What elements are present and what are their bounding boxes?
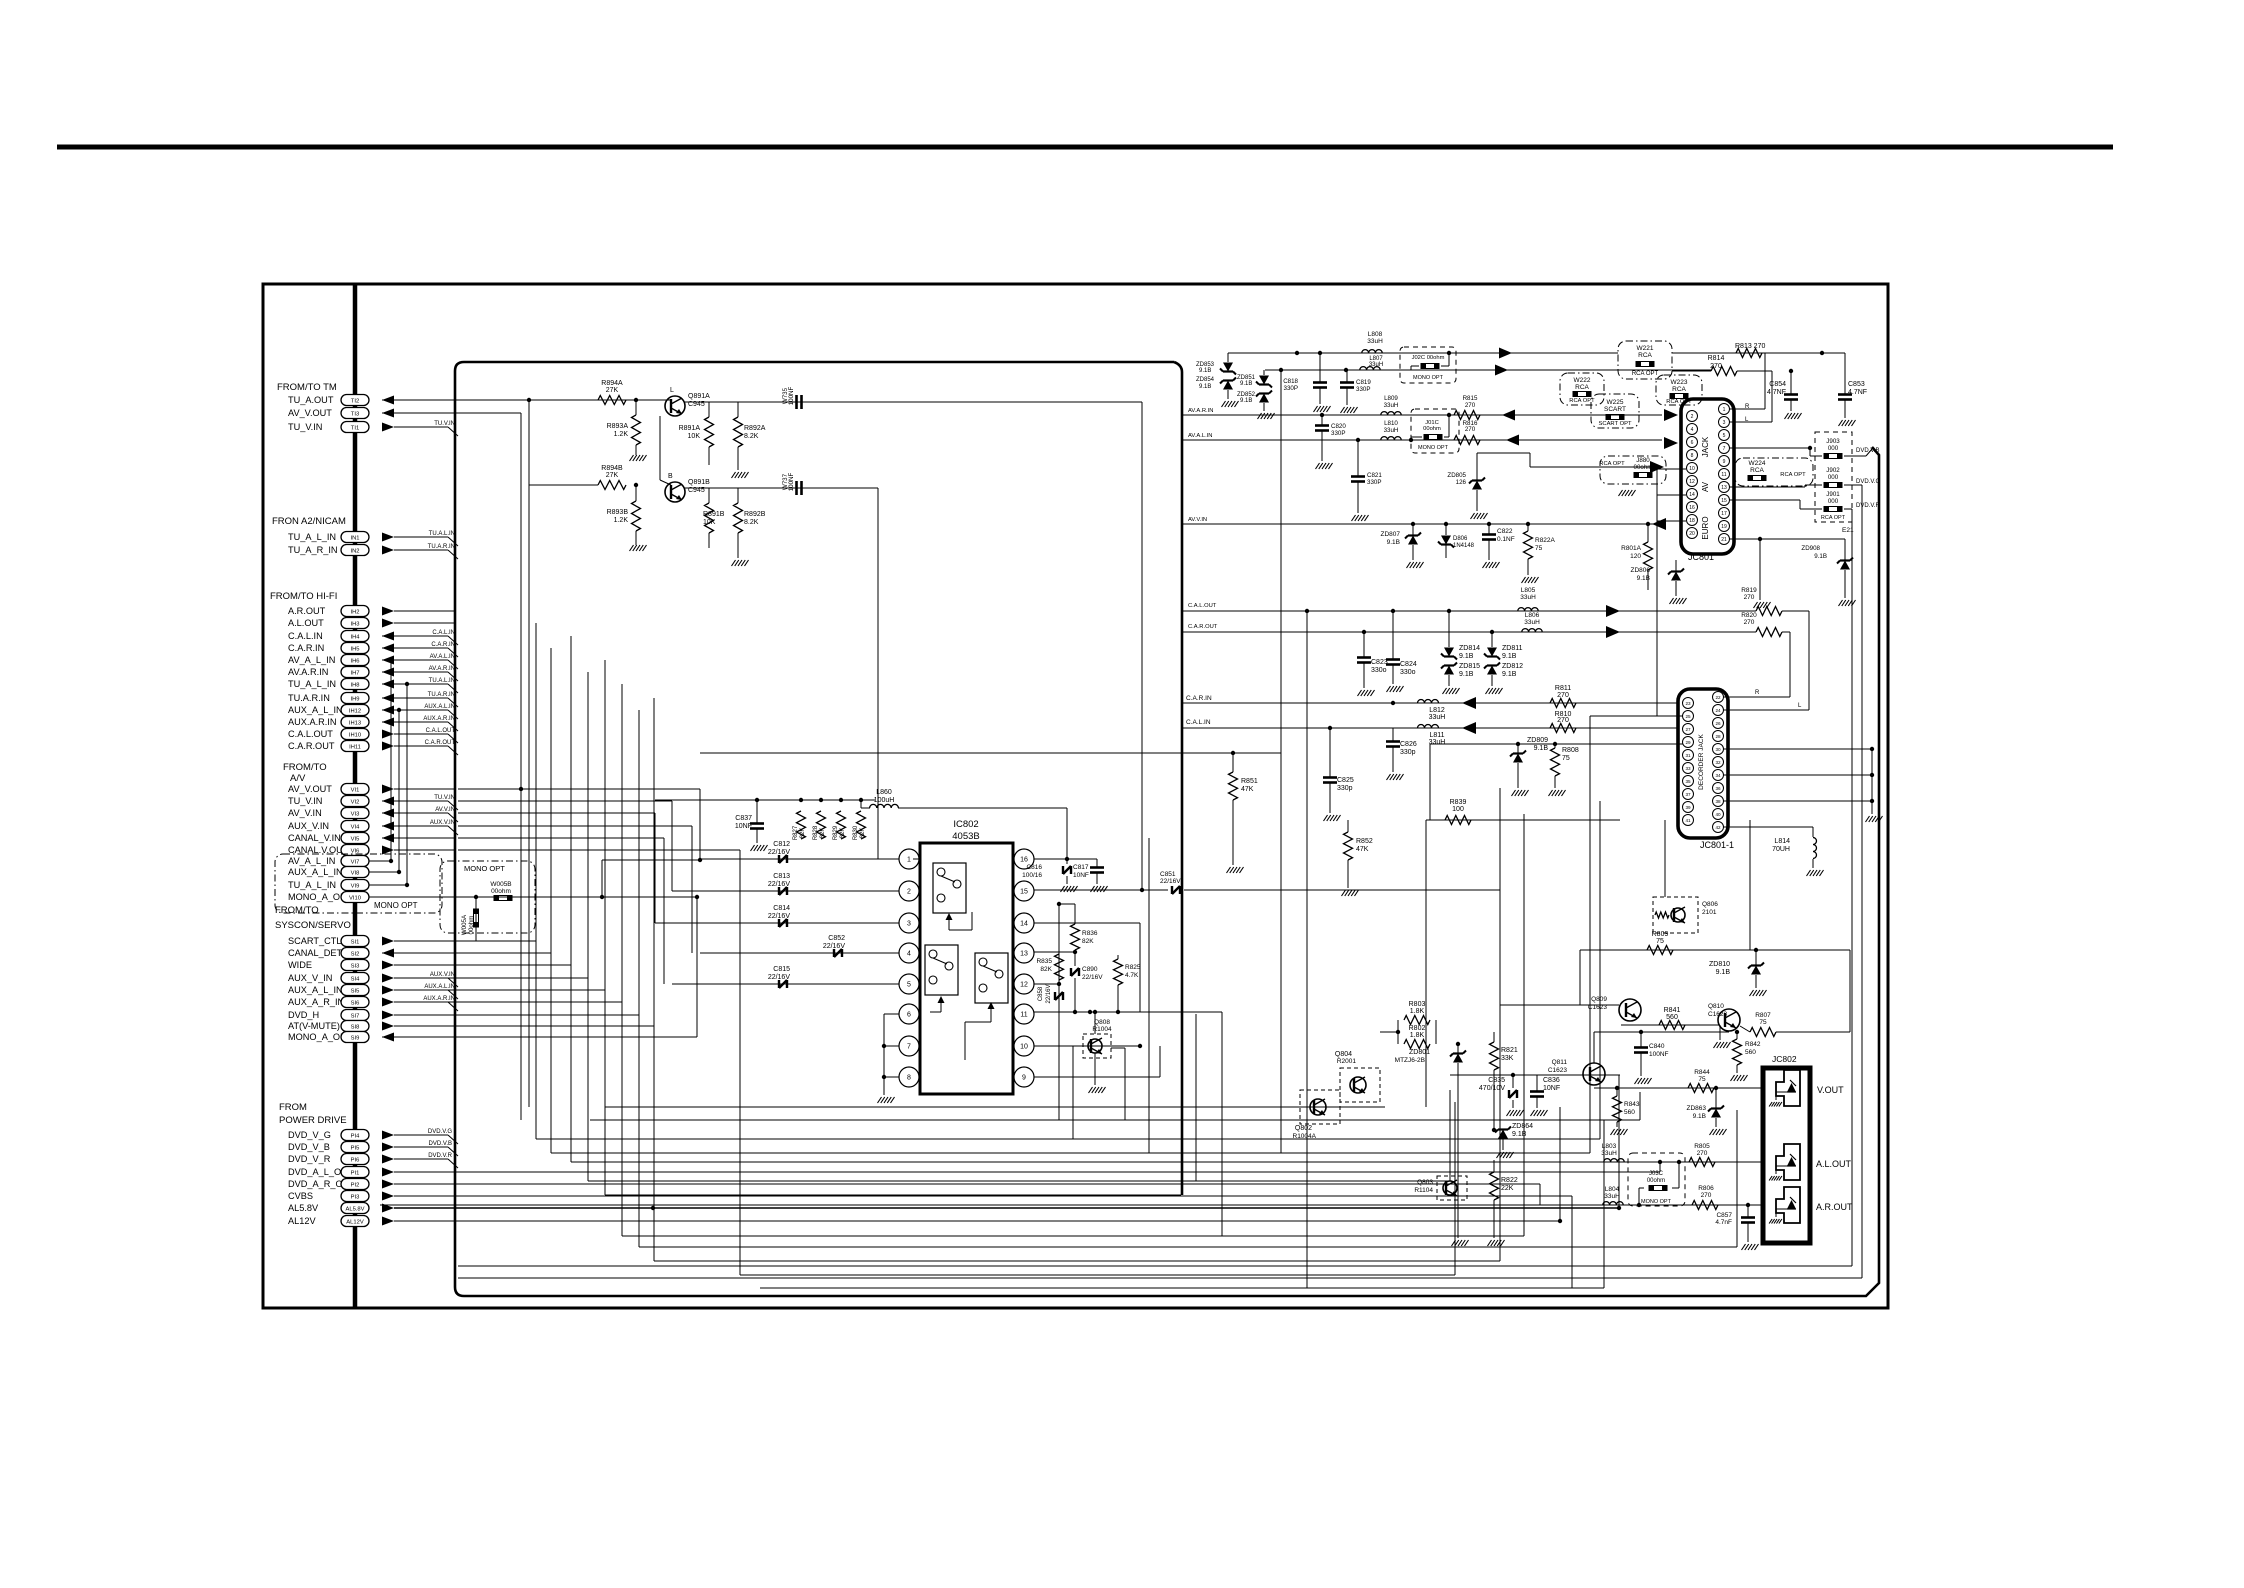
svg-text:12: 12 xyxy=(1020,982,1028,989)
svg-text:ZD815: ZD815 xyxy=(1459,663,1480,670)
svg-text:C826: C826 xyxy=(1400,741,1417,748)
svg-text:L811: L811 xyxy=(1429,732,1444,739)
svg-text:AUX.V.IN: AUX.V.IN xyxy=(430,972,455,978)
resistor R821 33K xyxy=(1490,1042,1499,1070)
svg-text:IH5: IH5 xyxy=(350,647,359,653)
svg-text:3: 3 xyxy=(907,921,911,928)
jumper J01C tie wires xyxy=(1448,415,1450,437)
svg-text:R2001: R2001 xyxy=(1337,1058,1357,1065)
svg-text:CANAL_V.IN: CANAL_V.IN xyxy=(288,833,341,843)
dash-dot box W224 RCA xyxy=(1735,458,1813,486)
svg-text:RCA OPT: RCA OPT xyxy=(1780,472,1806,478)
maze route to C857 riser xyxy=(639,1246,1737,1248)
resistor R829 82K xyxy=(837,811,846,839)
svg-text:DVD_H: DVD_H xyxy=(288,1010,319,1020)
wire mid vertical to JC801-1 xyxy=(1590,715,1683,717)
svg-text:560: 560 xyxy=(1624,1109,1635,1116)
svg-text:IH12: IH12 xyxy=(349,709,361,715)
svg-text:R894B: R894B xyxy=(601,465,623,472)
svg-text:R805: R805 xyxy=(1694,1143,1710,1150)
svg-text:70UH: 70UH xyxy=(1772,846,1790,853)
arrow C.A.L.IN xyxy=(1462,722,1476,734)
svg-text:270: 270 xyxy=(1465,402,1476,409)
svg-text:R815: R815 xyxy=(1463,395,1478,402)
svg-text:AUX.V.IN: AUX.V.IN xyxy=(430,820,455,826)
svg-text:FROM/TO HI-FI: FROM/TO HI-FI xyxy=(270,591,337,602)
svg-text:22/16V: 22/16V xyxy=(1160,878,1181,885)
svg-text:000: 000 xyxy=(1828,498,1839,505)
svg-text:R891A: R891A xyxy=(679,425,701,432)
svg-text:R839: R839 xyxy=(1450,799,1467,806)
svg-text:A.L.OUT: A.L.OUT xyxy=(288,618,324,628)
svg-text:19: 19 xyxy=(1721,524,1727,530)
svg-text:13: 13 xyxy=(1020,951,1028,958)
svg-text:FROM/TO: FROM/TO xyxy=(283,762,327,773)
arrow out C.A.R.OUT xyxy=(1606,626,1620,638)
svg-text:2: 2 xyxy=(907,889,911,896)
svg-text:75: 75 xyxy=(1535,545,1543,552)
svg-text:C818: C818 xyxy=(1283,378,1298,385)
svg-text:AV.V.IN: AV.V.IN xyxy=(435,807,455,813)
svg-text:82K: 82K xyxy=(820,828,826,839)
inductor L811 33uH xyxy=(1418,725,1439,728)
maze route wires xyxy=(536,1138,1600,1140)
svg-text:33K: 33K xyxy=(1501,1055,1514,1062)
svg-text:ZD811: ZD811 xyxy=(1502,645,1523,652)
svg-text:CVBS: CVBS xyxy=(288,1191,313,1201)
wire base bias row B xyxy=(528,400,530,485)
svg-text:C852: C852 xyxy=(828,935,845,942)
arrow into JC801 pin8 xyxy=(1650,461,1664,473)
DVD video route wires to right edge xyxy=(458,1265,1852,1267)
svg-text:R809: R809 xyxy=(1652,931,1669,938)
svg-text:C890: C890 xyxy=(1082,966,1098,973)
svg-text:R844: R844 xyxy=(1694,1069,1710,1076)
JC802 V.OUT jack xyxy=(1776,1070,1800,1106)
svg-text:VI1: VI1 xyxy=(351,788,360,794)
svg-text:270: 270 xyxy=(1744,619,1755,626)
svg-text:TU.V.IN: TU.V.IN xyxy=(434,795,455,801)
svg-text:AV.A.R.IN: AV.A.R.IN xyxy=(429,666,455,672)
svg-text:PI5: PI5 xyxy=(351,1146,360,1152)
resistor R892B 8.2K xyxy=(734,503,743,533)
svg-text:126: 126 xyxy=(1456,479,1467,486)
svg-text:C.A.L.IN: C.A.L.IN xyxy=(1186,719,1211,726)
svg-text:IH4: IH4 xyxy=(350,635,360,641)
svg-text:R852: R852 xyxy=(1356,838,1373,845)
svg-text:24: 24 xyxy=(1715,708,1721,713)
svg-text:39: 39 xyxy=(1685,805,1691,810)
svg-text:L814: L814 xyxy=(1774,838,1790,845)
transistor Q803 R1104 (digital) xyxy=(1437,1176,1467,1200)
svg-text:270: 270 xyxy=(1701,1192,1712,1199)
svg-text:SI7: SI7 xyxy=(351,1014,360,1020)
svg-text:C821: C821 xyxy=(1367,472,1382,479)
wires JC801-1 right side to gnd rail xyxy=(1723,748,1872,750)
svg-text:R893A: R893A xyxy=(607,423,629,430)
svg-text:FRON A2/NICAM: FRON A2/NICAM xyxy=(272,516,346,527)
svg-text:10K: 10K xyxy=(688,433,701,440)
svg-text:W225: W225 xyxy=(1607,399,1624,406)
svg-text:27K: 27K xyxy=(606,387,619,394)
svg-text:SI9: SI9 xyxy=(351,1036,360,1042)
svg-text:C.A.R.OUT: C.A.R.OUT xyxy=(1188,624,1218,630)
svg-text:SCART OPT: SCART OPT xyxy=(1599,421,1632,427)
svg-text:82K: 82K xyxy=(860,828,866,839)
svg-text:C819: C819 xyxy=(1356,379,1371,386)
svg-text:ZD908: ZD908 xyxy=(1801,545,1820,552)
svg-text:10NF: 10NF xyxy=(1073,872,1089,879)
svg-text:31: 31 xyxy=(1685,753,1691,758)
svg-text:22/16V: 22/16V xyxy=(823,943,846,950)
svg-text:J903: J903 xyxy=(1826,438,1840,445)
svg-text:16: 16 xyxy=(1689,505,1695,511)
svg-text:33uH: 33uH xyxy=(1520,594,1536,601)
svg-text:W224: W224 xyxy=(1749,460,1766,467)
svg-text:AV_V.OUT: AV_V.OUT xyxy=(288,408,332,418)
svg-text:B: B xyxy=(668,473,673,480)
IC802 switch box C xyxy=(975,953,1008,1003)
resistor R808 75 xyxy=(1551,748,1560,776)
svg-text:R813 270: R813 270 xyxy=(1735,343,1765,350)
resistor R891B 10K xyxy=(705,503,714,533)
svg-text:33uH: 33uH xyxy=(1524,619,1540,626)
wire pin21 down xyxy=(1729,538,1845,540)
svg-text:AV.A.L.IN: AV.A.L.IN xyxy=(1188,433,1213,439)
svg-text:9.1B: 9.1B xyxy=(1637,575,1650,582)
svg-text:82K: 82K xyxy=(1040,966,1052,973)
svg-text:DVD_V_B: DVD_V_B xyxy=(288,1142,330,1152)
svg-text:IH3: IH3 xyxy=(350,622,359,628)
svg-text:DECORDER JACK: DECORDER JACK xyxy=(1698,734,1705,790)
JC801-1 right pins xyxy=(1713,692,1724,703)
svg-text:R836: R836 xyxy=(1082,930,1098,937)
svg-text:21: 21 xyxy=(1721,537,1727,543)
svg-text:C817: C817 xyxy=(1073,864,1089,871)
wire rail C835 xyxy=(1450,1074,1620,1076)
svg-text:AL12V: AL12V xyxy=(288,1216,316,1226)
svg-text:DVD.V.G: DVD.V.G xyxy=(1856,479,1880,485)
svg-text:9.1B: 9.1B xyxy=(1534,745,1549,752)
svg-text:22/16V: 22/16V xyxy=(1046,984,1052,1003)
svg-text:TU.A.L.IN: TU.A.L.IN xyxy=(429,531,455,537)
svg-text:10: 10 xyxy=(1689,466,1695,472)
jumper W005A vertical wire xyxy=(475,897,477,941)
svg-text:VI5: VI5 xyxy=(351,837,360,843)
svg-text:IH10: IH10 xyxy=(349,733,361,739)
wire A.R.OUT bottom xyxy=(380,1204,1763,1206)
svg-text:34: 34 xyxy=(1715,773,1721,778)
wire MONO_A_OUT branch up to pin1 row xyxy=(601,860,603,897)
svg-text:IH6: IH6 xyxy=(350,659,359,665)
svg-text:R829: R829 xyxy=(833,825,839,840)
svg-text:4053B: 4053B xyxy=(952,831,979,842)
svg-text:ZD807: ZD807 xyxy=(1380,531,1400,538)
svg-text:AV_A_L_IN: AV_A_L_IN xyxy=(288,856,335,866)
svg-text:270: 270 xyxy=(1465,426,1476,433)
svg-text:C824: C824 xyxy=(1400,661,1417,668)
svg-text:33uH: 33uH xyxy=(1384,427,1399,434)
svg-text:IH2: IH2 xyxy=(350,610,359,616)
wire bias bus above IC xyxy=(655,799,875,801)
svg-text:J02C 00ohm: J02C 00ohm xyxy=(1412,355,1445,361)
diode D806 1N4148 xyxy=(1441,536,1451,545)
svg-text:IH13: IH13 xyxy=(349,721,361,727)
dash-dot box W222 RCA xyxy=(1560,373,1604,405)
svg-text:R802: R802 xyxy=(1409,1025,1426,1032)
svg-text:JACK: JACK xyxy=(1701,436,1710,457)
svg-text:9.1B: 9.1B xyxy=(1387,539,1400,546)
dashed box J03C MONO OPT bottom xyxy=(1628,1153,1685,1206)
svg-text:RCA: RCA xyxy=(1575,384,1589,391)
svg-text:AL12V: AL12V xyxy=(346,1220,364,1226)
svg-text:R841: R841 xyxy=(1664,1007,1681,1014)
svg-text:AUX.A.R.IN: AUX.A.R.IN xyxy=(423,716,455,722)
svg-text:ZD810: ZD810 xyxy=(1709,961,1730,968)
svg-text:4: 4 xyxy=(907,951,911,958)
svg-text:9: 9 xyxy=(1723,459,1726,465)
arrow into JC801 pin6 xyxy=(1664,437,1678,449)
svg-text:000: 000 xyxy=(1828,474,1839,481)
svg-text:5: 5 xyxy=(907,982,911,989)
svg-text:33uH: 33uH xyxy=(1367,338,1383,345)
svg-text:20: 20 xyxy=(1689,531,1695,537)
svg-text:VI8: VI8 xyxy=(351,871,360,877)
long vertical buses center-right xyxy=(1280,370,1282,1153)
svg-text:R893B: R893B xyxy=(607,509,629,516)
svg-text:0.1NF: 0.1NF xyxy=(1497,536,1515,543)
svg-text:75: 75 xyxy=(1698,1076,1706,1083)
resistor R842 560 xyxy=(1733,1039,1742,1065)
svg-text:L809: L809 xyxy=(1384,395,1398,402)
inner board outline left/top/bottom xyxy=(455,362,1879,1296)
svg-text:MONO OPT: MONO OPT xyxy=(1413,375,1444,381)
svg-text:SI3: SI3 xyxy=(351,964,360,970)
svg-text:10K: 10K xyxy=(703,519,716,526)
svg-text:TU_V.IN: TU_V.IN xyxy=(288,796,322,806)
svg-text:R830: R830 xyxy=(853,825,859,840)
wire pin15 right long xyxy=(1034,889,1168,891)
svg-text:VI9: VI9 xyxy=(351,884,360,890)
JC802 A.R.OUT jack xyxy=(1776,1187,1800,1223)
IC802 switch box B xyxy=(925,945,958,995)
long vertical from TI3 bus down to maze xyxy=(520,789,522,1120)
svg-text:TU_A_L_IN: TU_A_L_IN xyxy=(288,679,336,689)
wire pin12 xyxy=(1034,983,1059,985)
svg-text:15: 15 xyxy=(1721,498,1727,504)
svg-text:AUX_V.IN: AUX_V.IN xyxy=(288,821,329,831)
svg-text:4.7nF: 4.7nF xyxy=(1715,1219,1732,1226)
svg-text:23: 23 xyxy=(1685,701,1691,706)
svg-text:MONO OPT: MONO OPT xyxy=(1641,1199,1672,1205)
svg-text:270: 270 xyxy=(1744,594,1755,601)
svg-text:TI3: TI3 xyxy=(351,412,359,418)
svg-text:C851: C851 xyxy=(1160,871,1176,878)
svg-text:C816: C816 xyxy=(1026,864,1042,871)
svg-text:FROM/TO: FROM/TO xyxy=(275,905,319,916)
svg-text:JC801-1: JC801-1 xyxy=(1700,840,1734,850)
wires syscon ports horizontal xyxy=(394,940,536,942)
svg-text:8: 8 xyxy=(907,1075,911,1082)
svg-text:100NF: 100NF xyxy=(788,386,795,405)
svg-text:9.1B: 9.1B xyxy=(1814,553,1827,560)
svg-text:R827: R827 xyxy=(793,825,799,840)
capacitor W737 100NF xyxy=(795,481,798,495)
wire C.A.R.OUT to JC801-1 pin22 xyxy=(1782,631,1790,633)
svg-text:AV_V.OUT: AV_V.OUT xyxy=(288,784,332,794)
svg-text:ZD809: ZD809 xyxy=(1527,737,1548,744)
svg-text:C.A.L.IN: C.A.L.IN xyxy=(288,631,323,641)
svg-text:DVD.V.B: DVD.V.B xyxy=(429,1141,452,1147)
svg-text:Q891A: Q891A xyxy=(688,393,710,400)
svg-text:R: R xyxy=(1755,690,1760,696)
svg-text:RCA: RCA xyxy=(1672,386,1686,393)
thick interface bus bar xyxy=(353,284,358,1308)
svg-text:1: 1 xyxy=(907,857,911,864)
svg-text:00ohm: 00ohm xyxy=(491,888,511,895)
svg-text:RCA: RCA xyxy=(1750,467,1764,474)
svg-text:ZD854: ZD854 xyxy=(1196,377,1215,383)
IC802 left pin circles 1-8 xyxy=(899,849,919,869)
svg-text:100uH: 100uH xyxy=(874,797,895,804)
maze bus verticals left xyxy=(535,623,537,1139)
dash-dot box W221 RCA xyxy=(1618,341,1672,379)
svg-text:FROM: FROM xyxy=(279,1102,307,1113)
resistor R893A 1.2K xyxy=(632,415,641,445)
wire Q891A collector down to Q891B xyxy=(659,416,661,480)
svg-text:4: 4 xyxy=(1691,427,1694,433)
wire Q891B emitter rail xyxy=(684,487,878,489)
wire pin41 row xyxy=(1430,743,1683,745)
svg-text:33uH: 33uH xyxy=(1429,739,1446,746)
svg-text:9.1B: 9.1B xyxy=(1240,398,1252,404)
svg-text:18: 18 xyxy=(1689,518,1695,524)
svg-text:1.8K: 1.8K xyxy=(1410,1032,1425,1039)
svg-text:R806: R806 xyxy=(1698,1185,1714,1192)
resistor R836 82K xyxy=(1071,924,1080,950)
dash-dot box MONO OPT with W005 jumpers xyxy=(440,861,535,933)
connector JC801 EURO AV JACK body xyxy=(1681,399,1734,554)
svg-text:8: 8 xyxy=(1691,453,1694,459)
svg-text:33: 33 xyxy=(1685,766,1691,771)
svg-text:C.A.L.OUT: C.A.L.OUT xyxy=(1188,603,1217,609)
transistor Q804 R2001 (digital) xyxy=(1340,1068,1380,1102)
svg-text:10NF: 10NF xyxy=(1543,1085,1560,1092)
wire TU_A.OUT to Q891A xyxy=(382,399,666,401)
svg-text:C.A.L.OUT: C.A.L.OUT xyxy=(288,729,333,739)
svg-text:TU.A.R.IN: TU.A.R.IN xyxy=(428,692,455,698)
svg-text:AV.A.R.IN: AV.A.R.IN xyxy=(288,667,328,677)
svg-text:AV: AV xyxy=(1701,481,1710,492)
svg-text:10: 10 xyxy=(1020,1044,1028,1051)
svg-text:ZD814: ZD814 xyxy=(1459,645,1480,652)
transistor Q806 2101 (digital) xyxy=(1653,897,1698,933)
svg-text:C840: C840 xyxy=(1649,1043,1665,1050)
svg-text:330p: 330p xyxy=(1337,785,1353,792)
svg-text:RCA: RCA xyxy=(1638,352,1652,359)
svg-text:R820: R820 xyxy=(1741,612,1757,619)
inductor L812 33uH xyxy=(1418,700,1439,704)
svg-text:FROM/TO TM: FROM/TO TM xyxy=(277,382,337,393)
svg-text:DVD_V_G: DVD_V_G xyxy=(288,1130,331,1140)
svg-text:VI10: VI10 xyxy=(349,896,361,902)
long vertical from bias bus down xyxy=(528,485,530,1107)
svg-text:R825: R825 xyxy=(1125,964,1141,971)
svg-text:DVD_V_R: DVD_V_R xyxy=(288,1154,331,1164)
svg-text:100NF: 100NF xyxy=(1649,1051,1669,1058)
svg-text:22/16V: 22/16V xyxy=(768,913,791,920)
svg-text:IH11: IH11 xyxy=(349,745,361,751)
svg-text:C.A.R.IN: C.A.R.IN xyxy=(431,642,455,648)
svg-text:A/V: A/V xyxy=(290,773,306,784)
IC802 internal control arrows xyxy=(948,917,950,930)
capacitor W735 100NF xyxy=(795,395,798,409)
svg-text:AV.A.L.IN: AV.A.L.IN xyxy=(430,654,455,660)
svg-text:13: 13 xyxy=(1721,485,1727,491)
svg-text:17: 17 xyxy=(1721,511,1727,517)
svg-text:22/16V: 22/16V xyxy=(768,881,791,888)
svg-text:C.A.L.OUT: C.A.L.OUT xyxy=(426,728,456,734)
svg-text:W221: W221 xyxy=(1637,345,1654,352)
svg-text:TU.A.R.IN: TU.A.R.IN xyxy=(288,693,330,703)
svg-text:POWER DRIVE: POWER DRIVE xyxy=(279,1115,347,1126)
wire AV_V.OUT vertical riser xyxy=(382,412,521,414)
svg-text:W222: W222 xyxy=(1574,377,1591,384)
svg-text:Q808: Q808 xyxy=(1094,1019,1110,1026)
svg-text:W005B: W005B xyxy=(490,881,511,888)
svg-text:22/16V: 22/16V xyxy=(1082,974,1103,981)
svg-text:8.2K: 8.2K xyxy=(744,433,759,440)
svg-text:6: 6 xyxy=(907,1012,911,1019)
svg-text:9.1B: 9.1B xyxy=(1512,1131,1527,1138)
svg-text:C814: C814 xyxy=(773,905,790,912)
svg-text:ZD805: ZD805 xyxy=(1447,472,1466,479)
resistor R843 560 xyxy=(1613,1096,1622,1122)
svg-text:R807: R807 xyxy=(1755,1012,1771,1019)
svg-text:RCA OPT: RCA OPT xyxy=(1821,515,1846,521)
svg-text:AV.A.R.IN: AV.A.R.IN xyxy=(1188,408,1213,414)
svg-text:Q891B: Q891B xyxy=(688,479,710,486)
svg-text:VI7: VI7 xyxy=(351,860,360,866)
svg-text:26: 26 xyxy=(1715,721,1721,726)
svg-text:IN2: IN2 xyxy=(350,549,359,555)
svg-text:DVD.V.R: DVD.V.R xyxy=(428,1153,452,1159)
svg-text:L860: L860 xyxy=(876,789,892,796)
svg-text:AUX.A.L.IN: AUX.A.L.IN xyxy=(424,984,455,990)
svg-text:L804: L804 xyxy=(1605,1186,1620,1193)
IC802 pins 6-8 gnd tie xyxy=(884,1013,899,1015)
svg-text:SI1: SI1 xyxy=(351,940,360,946)
second bus wire with L807 xyxy=(1265,369,1508,371)
svg-text:AUX.A.R.IN: AUX.A.R.IN xyxy=(288,717,337,727)
svg-text:A.R.OUT: A.R.OUT xyxy=(288,606,326,616)
svg-text:22: 22 xyxy=(1715,695,1721,700)
svg-text:33uH: 33uH xyxy=(1604,1193,1620,1200)
svg-text:TU_A_L_IN: TU_A_L_IN xyxy=(288,532,336,542)
svg-text:TI1: TI1 xyxy=(351,426,359,432)
resistor R825 4.7K xyxy=(1114,959,1123,985)
svg-text:R808: R808 xyxy=(1562,747,1579,754)
svg-text:J901: J901 xyxy=(1826,491,1840,498)
svg-text:47K: 47K xyxy=(1241,786,1254,793)
dash-dot box J880 RCA OPT xyxy=(1600,456,1666,484)
svg-text:C.A.R.IN: C.A.R.IN xyxy=(288,643,324,653)
svg-text:C822: C822 xyxy=(1497,528,1513,535)
svg-text:9.1B: 9.1B xyxy=(1240,381,1252,387)
svg-text:V.OUT: V.OUT xyxy=(1817,1085,1844,1095)
svg-text:R821: R821 xyxy=(1501,1047,1518,1054)
svg-text:25: 25 xyxy=(1685,714,1691,719)
